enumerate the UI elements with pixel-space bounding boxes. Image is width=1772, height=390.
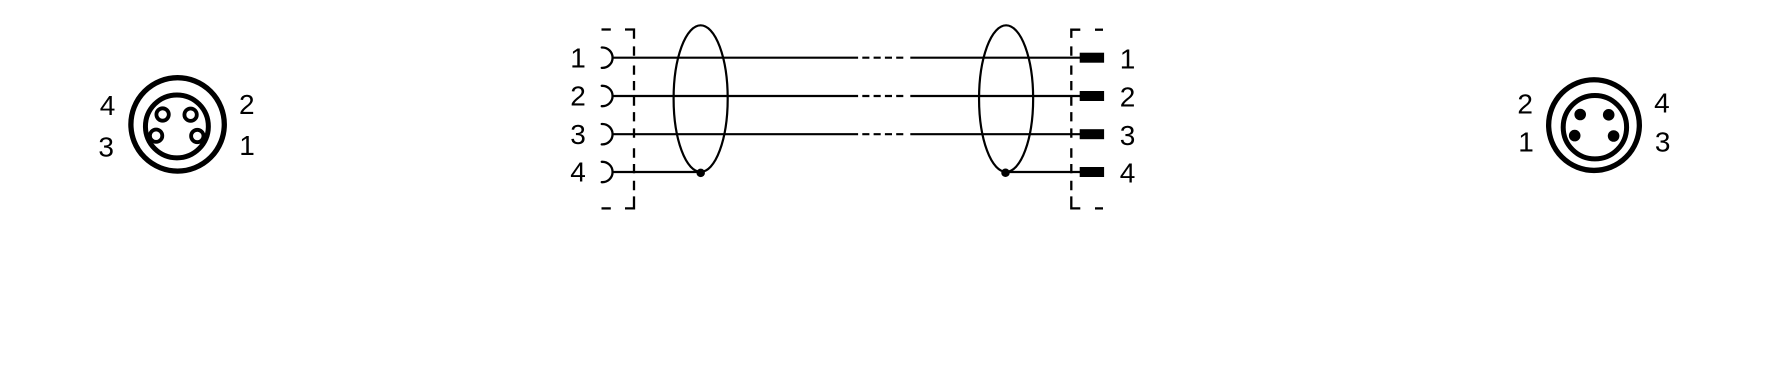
right housing boundary (dashed bracket) (1071, 30, 1103, 209)
svg-text:4: 4 (100, 90, 116, 121)
cable shield ellipse (right) (979, 25, 1033, 172)
female contact 3 (602, 124, 613, 144)
connector X2 inner ring (1563, 96, 1626, 159)
svg-text:2: 2 (570, 81, 586, 112)
male contact 2 (1080, 91, 1104, 101)
svg-text:2: 2 (1120, 82, 1136, 113)
svg-text:1: 1 (1120, 43, 1136, 74)
svg-text:1: 1 (239, 130, 255, 161)
svg-text:4: 4 (1120, 158, 1136, 189)
svg-text:4: 4 (570, 157, 586, 188)
svg-text:3: 3 (1655, 127, 1671, 158)
wire 3 (613, 133, 1080, 135)
junction dot right (wire 4 to shield) (1001, 169, 1010, 178)
connector X2 pin 1 (dot) (1569, 130, 1581, 142)
wire 2 (613, 95, 1080, 97)
connector X1 socket pin 2 (184, 109, 196, 121)
connector X2 pin 4 (dot) (1603, 109, 1615, 121)
female contact 1 (602, 48, 613, 68)
connector X1 socket pin 3 (150, 130, 162, 142)
male contact 3 (1080, 129, 1104, 139)
svg-text:1: 1 (1518, 127, 1534, 158)
svg-text:3: 3 (570, 119, 586, 150)
connector X1 face (M8 female) outer ring (131, 78, 224, 171)
connector X2 face (M8 male) outer ring (1549, 80, 1640, 171)
connector X1 socket pin 1 (191, 130, 203, 142)
svg-text:3: 3 (1120, 120, 1136, 151)
left housing boundary (dashed bracket) (602, 30, 635, 209)
wire 4 (left segment to shield) (613, 171, 701, 173)
connector X2 pin 2 (dot) (1574, 109, 1586, 121)
wire 4 (right segment from shield) (1005, 171, 1080, 173)
svg-text:2: 2 (239, 89, 255, 120)
male contact 1 (1080, 53, 1104, 63)
cable shield ellipse (left) (674, 25, 728, 172)
female contact 4 (602, 162, 613, 182)
female contact 2 (602, 86, 613, 106)
svg-text:4: 4 (1654, 87, 1670, 118)
connector X1 inner ring (145, 95, 208, 158)
connector X1 socket pin 4 (156, 108, 168, 120)
wire 1 (613, 57, 1080, 59)
svg-text:2: 2 (1517, 88, 1533, 119)
svg-text:3: 3 (98, 132, 114, 163)
junction dot left (wire 4 to shield) (696, 169, 705, 178)
svg-text:1: 1 (570, 42, 586, 73)
male contact 4 (1080, 167, 1104, 177)
connector X2 pin 3 (dot) (1608, 130, 1620, 142)
